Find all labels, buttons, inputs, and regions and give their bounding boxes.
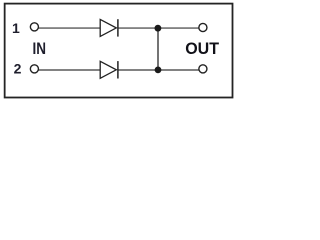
border frame [5, 4, 233, 98]
wire vertical node to node [157, 28, 159, 70]
diode D1 [100, 19, 118, 36]
OUT terminal circle bottom [199, 65, 207, 73]
terminal 2 circle [30, 65, 38, 73]
svg-text:IN: IN [32, 40, 46, 58]
terminal 1 circle [30, 23, 38, 31]
OUT terminal circle top [199, 23, 207, 31]
junction node top [155, 25, 162, 32]
wire node to OUT terminal top [158, 27, 199, 29]
diode D2 [100, 61, 118, 78]
svg-text:1: 1 [12, 20, 20, 36]
svg-text:OUT: OUT [185, 40, 219, 58]
svg-text:2: 2 [14, 61, 22, 77]
junction node bottom [155, 67, 162, 74]
wire terminal1 to D1 anode [39, 27, 101, 29]
wire D2 cathode to node [119, 69, 159, 71]
wire node to OUT terminal bottom [158, 69, 199, 71]
wire terminal2 to D2 anode [39, 69, 101, 71]
wire D1 cathode to node [119, 27, 159, 29]
